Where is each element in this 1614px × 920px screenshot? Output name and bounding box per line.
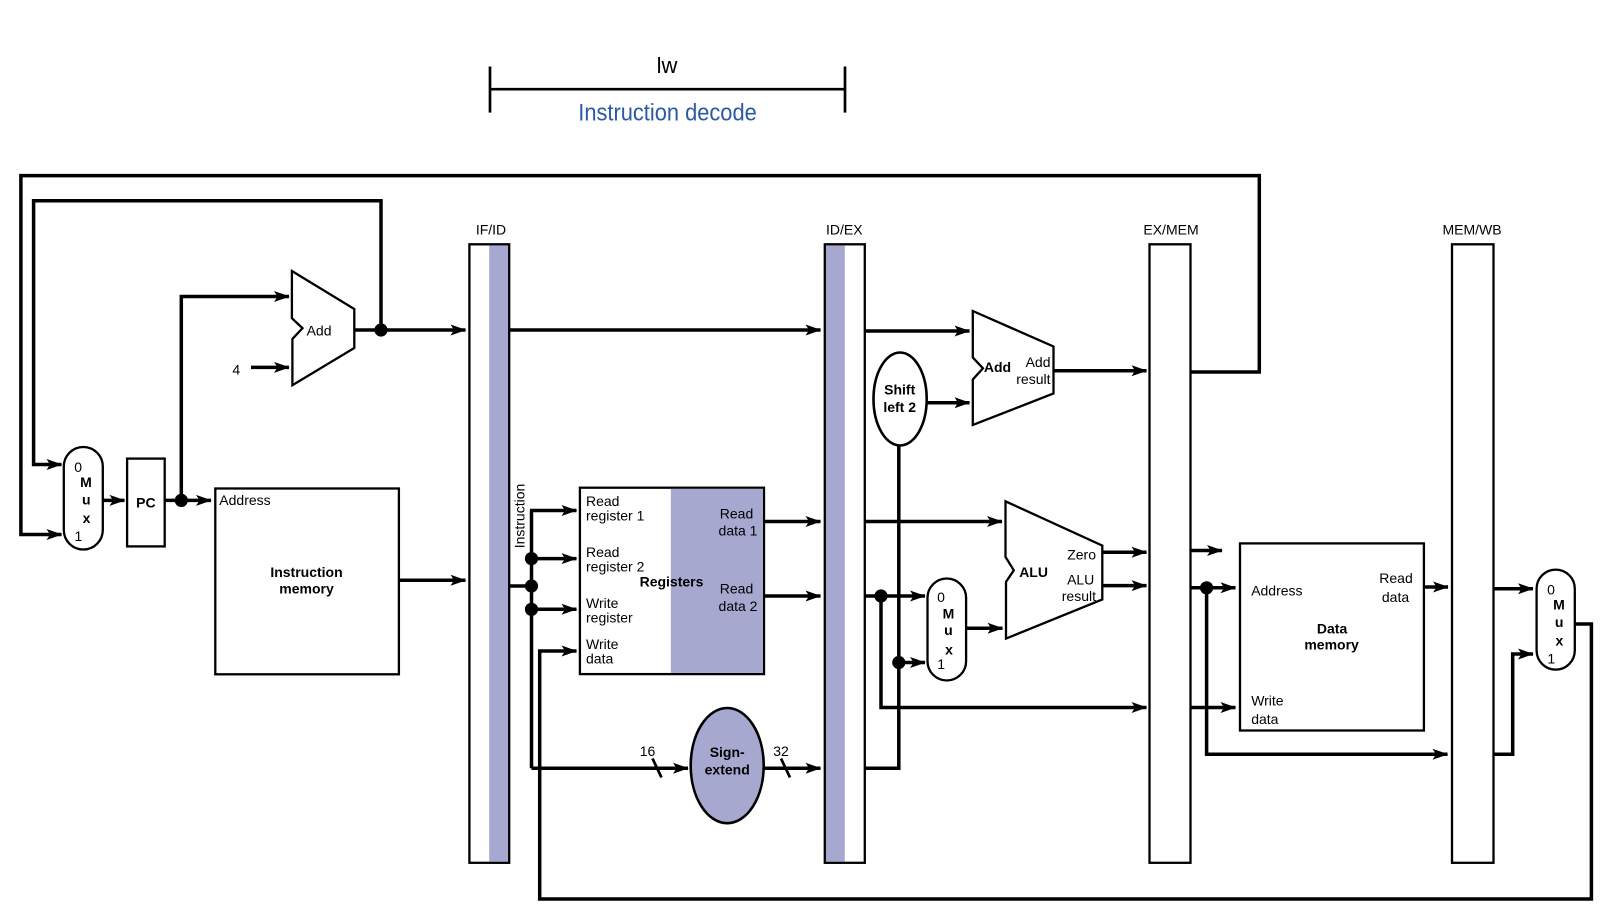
- svg-text:Address: Address: [1251, 583, 1302, 599]
- svg-text:Read: Read: [720, 506, 753, 522]
- sign extend unit: [691, 708, 764, 823]
- wire to Write register: [532, 608, 577, 612]
- svg-text:data 1: data 1: [719, 523, 758, 539]
- svg-text:Shift: Shift: [884, 381, 915, 397]
- svg-text:M: M: [1553, 597, 1565, 613]
- wire ALU result from MEM/WB to Mux input 1: [1494, 654, 1533, 754]
- data memory: [1240, 543, 1424, 730]
- svg-text:left 2: left 2: [883, 399, 916, 415]
- svg-text:EX/MEM: EX/MEM: [1143, 222, 1198, 238]
- svg-text:Add: Add: [307, 322, 332, 338]
- wire Read data 2 to ID/EX: [765, 594, 821, 598]
- svg-text:register 2: register 2: [586, 559, 645, 575]
- wire write-back: Mux output around bottom to Registers Write data: [540, 624, 1592, 899]
- svg-text:Zero: Zero: [1067, 547, 1096, 563]
- svg-text:memory: memory: [279, 581, 334, 597]
- junction dot PC output: [175, 494, 188, 507]
- wire instruction bus vertical: [530, 511, 534, 769]
- svg-text:u: u: [944, 622, 953, 638]
- svg-text:x: x: [83, 510, 91, 526]
- pipeline register ID/EX: [825, 244, 865, 863]
- wire ALU Zero to EX/MEM: [1102, 550, 1146, 554]
- wire to Read register 2: [532, 557, 577, 561]
- svg-text:register 1: register 1: [586, 508, 645, 524]
- svg-text:1: 1: [1547, 650, 1555, 666]
- svg-text:Address: Address: [219, 492, 270, 508]
- svg-text:Instruction decode: Instruction decode: [578, 100, 757, 127]
- svg-text:ALU: ALU: [1067, 572, 1094, 588]
- svg-text:IF/ID: IF/ID: [476, 222, 506, 238]
- svg-text:Add: Add: [1026, 354, 1051, 370]
- PC register: [127, 459, 165, 547]
- wire branch-target feedback: EX/MEM out, up over top, down to Mux input 1: [21, 176, 1259, 535]
- junction dot immediate to mux: [892, 656, 905, 669]
- svg-text:M: M: [80, 474, 92, 490]
- svg-text:4: 4: [232, 362, 240, 378]
- svg-text:16: 16: [640, 743, 656, 759]
- junction dot instruction bus write register: [525, 603, 538, 616]
- wire PC+4 feedback: Add output up and left to Mux input 0: [34, 201, 381, 465]
- svg-text:PC: PC: [136, 494, 155, 510]
- wire Mux to PC: [103, 499, 125, 503]
- svg-text:Instruction: Instruction: [270, 564, 342, 580]
- wire instruction stub from IF/ID: [510, 584, 532, 588]
- mux M1 (PC source mux): [64, 447, 103, 550]
- wire Read data from Data memory to MEM/WB: [1425, 585, 1448, 589]
- svg-text:Data: Data: [1317, 621, 1348, 637]
- wire ALU Mux output to ALU: [966, 627, 1002, 631]
- wire Shift left 2 to branch Add: [927, 401, 970, 405]
- wire Read data 2 branch down to EX/MEM (write data): [881, 596, 1147, 708]
- wire Instruction memory to IF/ID: [399, 579, 466, 583]
- shift left 2 unit: [874, 353, 927, 446]
- wire Read data from MEM/WB to Mux input 0: [1494, 587, 1533, 591]
- svg-text:ID/EX: ID/EX: [826, 222, 863, 238]
- junction dot ALU result branch: [1200, 581, 1213, 594]
- wire sign-extended value from ID/EX up to Shift left 2: [865, 446, 899, 768]
- pipeline register IF/ID: [469, 244, 509, 863]
- wire Zero stub out of EX/MEM: [1191, 549, 1223, 553]
- junction dot Add output: [374, 323, 387, 336]
- instruction memory: [215, 489, 399, 675]
- wire Read data 2 from ID/EX to ALU Mux input 0: [865, 594, 925, 598]
- wire branch Add result to EX/MEM: [1054, 369, 1147, 373]
- svg-text:x: x: [945, 641, 953, 657]
- mux M3 (write-back mux): [1537, 570, 1575, 670]
- svg-text:memory: memory: [1304, 637, 1359, 653]
- svg-text:result: result: [1062, 588, 1096, 604]
- svg-text:data: data: [586, 651, 613, 667]
- svg-text:1: 1: [75, 528, 83, 544]
- wire write data from EX/MEM to Data memory: [1191, 706, 1236, 710]
- svg-text:MEM/WB: MEM/WB: [1442, 222, 1501, 238]
- wire ALU result to EX/MEM: [1102, 584, 1146, 588]
- wire PC+4 from IF/ID to ID/EX: [510, 328, 821, 332]
- svg-text:1: 1: [937, 656, 945, 672]
- svg-text:Read: Read: [720, 581, 753, 597]
- junction dot instruction bus stub: [525, 579, 538, 592]
- wire to Sign-extend: [532, 767, 689, 771]
- mux M2 (ALU operand mux): [928, 579, 967, 681]
- svg-text:data: data: [1382, 589, 1409, 605]
- svg-text:lw: lw: [657, 53, 678, 78]
- ALU U1: [1006, 501, 1103, 638]
- svg-text:result: result: [1016, 371, 1050, 387]
- svg-text:Read: Read: [1379, 570, 1412, 586]
- wire Sign-extend output to ID/EX: [764, 767, 821, 771]
- wire Read data 1 from ID/EX to ALU: [865, 520, 1002, 524]
- svg-text:Write: Write: [1251, 693, 1284, 709]
- registers block: [580, 488, 764, 674]
- wire ALU result from EX/MEM to Data memory Address: [1191, 586, 1236, 590]
- wire Read data 1 to ID/EX: [765, 520, 821, 524]
- svg-text:u: u: [1555, 614, 1564, 630]
- svg-text:ALU: ALU: [1019, 564, 1048, 580]
- svg-text:data 2: data 2: [719, 598, 758, 614]
- wire to Read register 1: [530, 509, 577, 513]
- svg-text:register: register: [586, 609, 633, 625]
- wire PC+4 from ID/EX to branch Add: [865, 329, 970, 333]
- stage bracket bar: [490, 88, 845, 91]
- bit-width slash 16: [653, 759, 662, 778]
- svg-text:data: data: [1251, 711, 1278, 727]
- svg-text:0: 0: [1547, 581, 1555, 597]
- svg-text:Sign-: Sign-: [710, 744, 745, 760]
- pipeline register EX/MEM: [1150, 244, 1191, 863]
- svg-text:extend: extend: [705, 761, 750, 777]
- svg-text:0: 0: [74, 459, 82, 475]
- svg-text:x: x: [1556, 632, 1564, 648]
- svg-text:Registers: Registers: [640, 573, 704, 589]
- svg-text:M: M: [943, 606, 955, 622]
- wire constant 4 to Add: [251, 366, 289, 370]
- wire PC to Instruction memory Address: [165, 499, 211, 503]
- junction dot instruction bus read register 2: [525, 552, 538, 565]
- adder Add (branch target): [973, 311, 1054, 425]
- svg-text:0: 0: [937, 589, 945, 605]
- junction dot read data 2 branch: [874, 589, 887, 602]
- wire immediate branch to ALU Mux input 1: [899, 661, 925, 665]
- svg-text:32: 32: [773, 743, 789, 759]
- wire PC up to Add top input: [181, 297, 289, 501]
- wire Add output to IF/ID: [354, 328, 465, 332]
- svg-text:Add: Add: [984, 359, 1011, 375]
- svg-text:Instruction: Instruction: [512, 484, 528, 549]
- pipeline register MEM/WB: [1452, 244, 1494, 863]
- stage bracket right tick: [844, 67, 847, 113]
- wire ALU result branch down to MEM/WB: [1207, 588, 1448, 754]
- bit-width slash 32: [781, 759, 790, 778]
- stage bracket left tick: [489, 67, 492, 113]
- adder Add (PC+4): [292, 271, 354, 385]
- svg-text:u: u: [82, 492, 91, 508]
